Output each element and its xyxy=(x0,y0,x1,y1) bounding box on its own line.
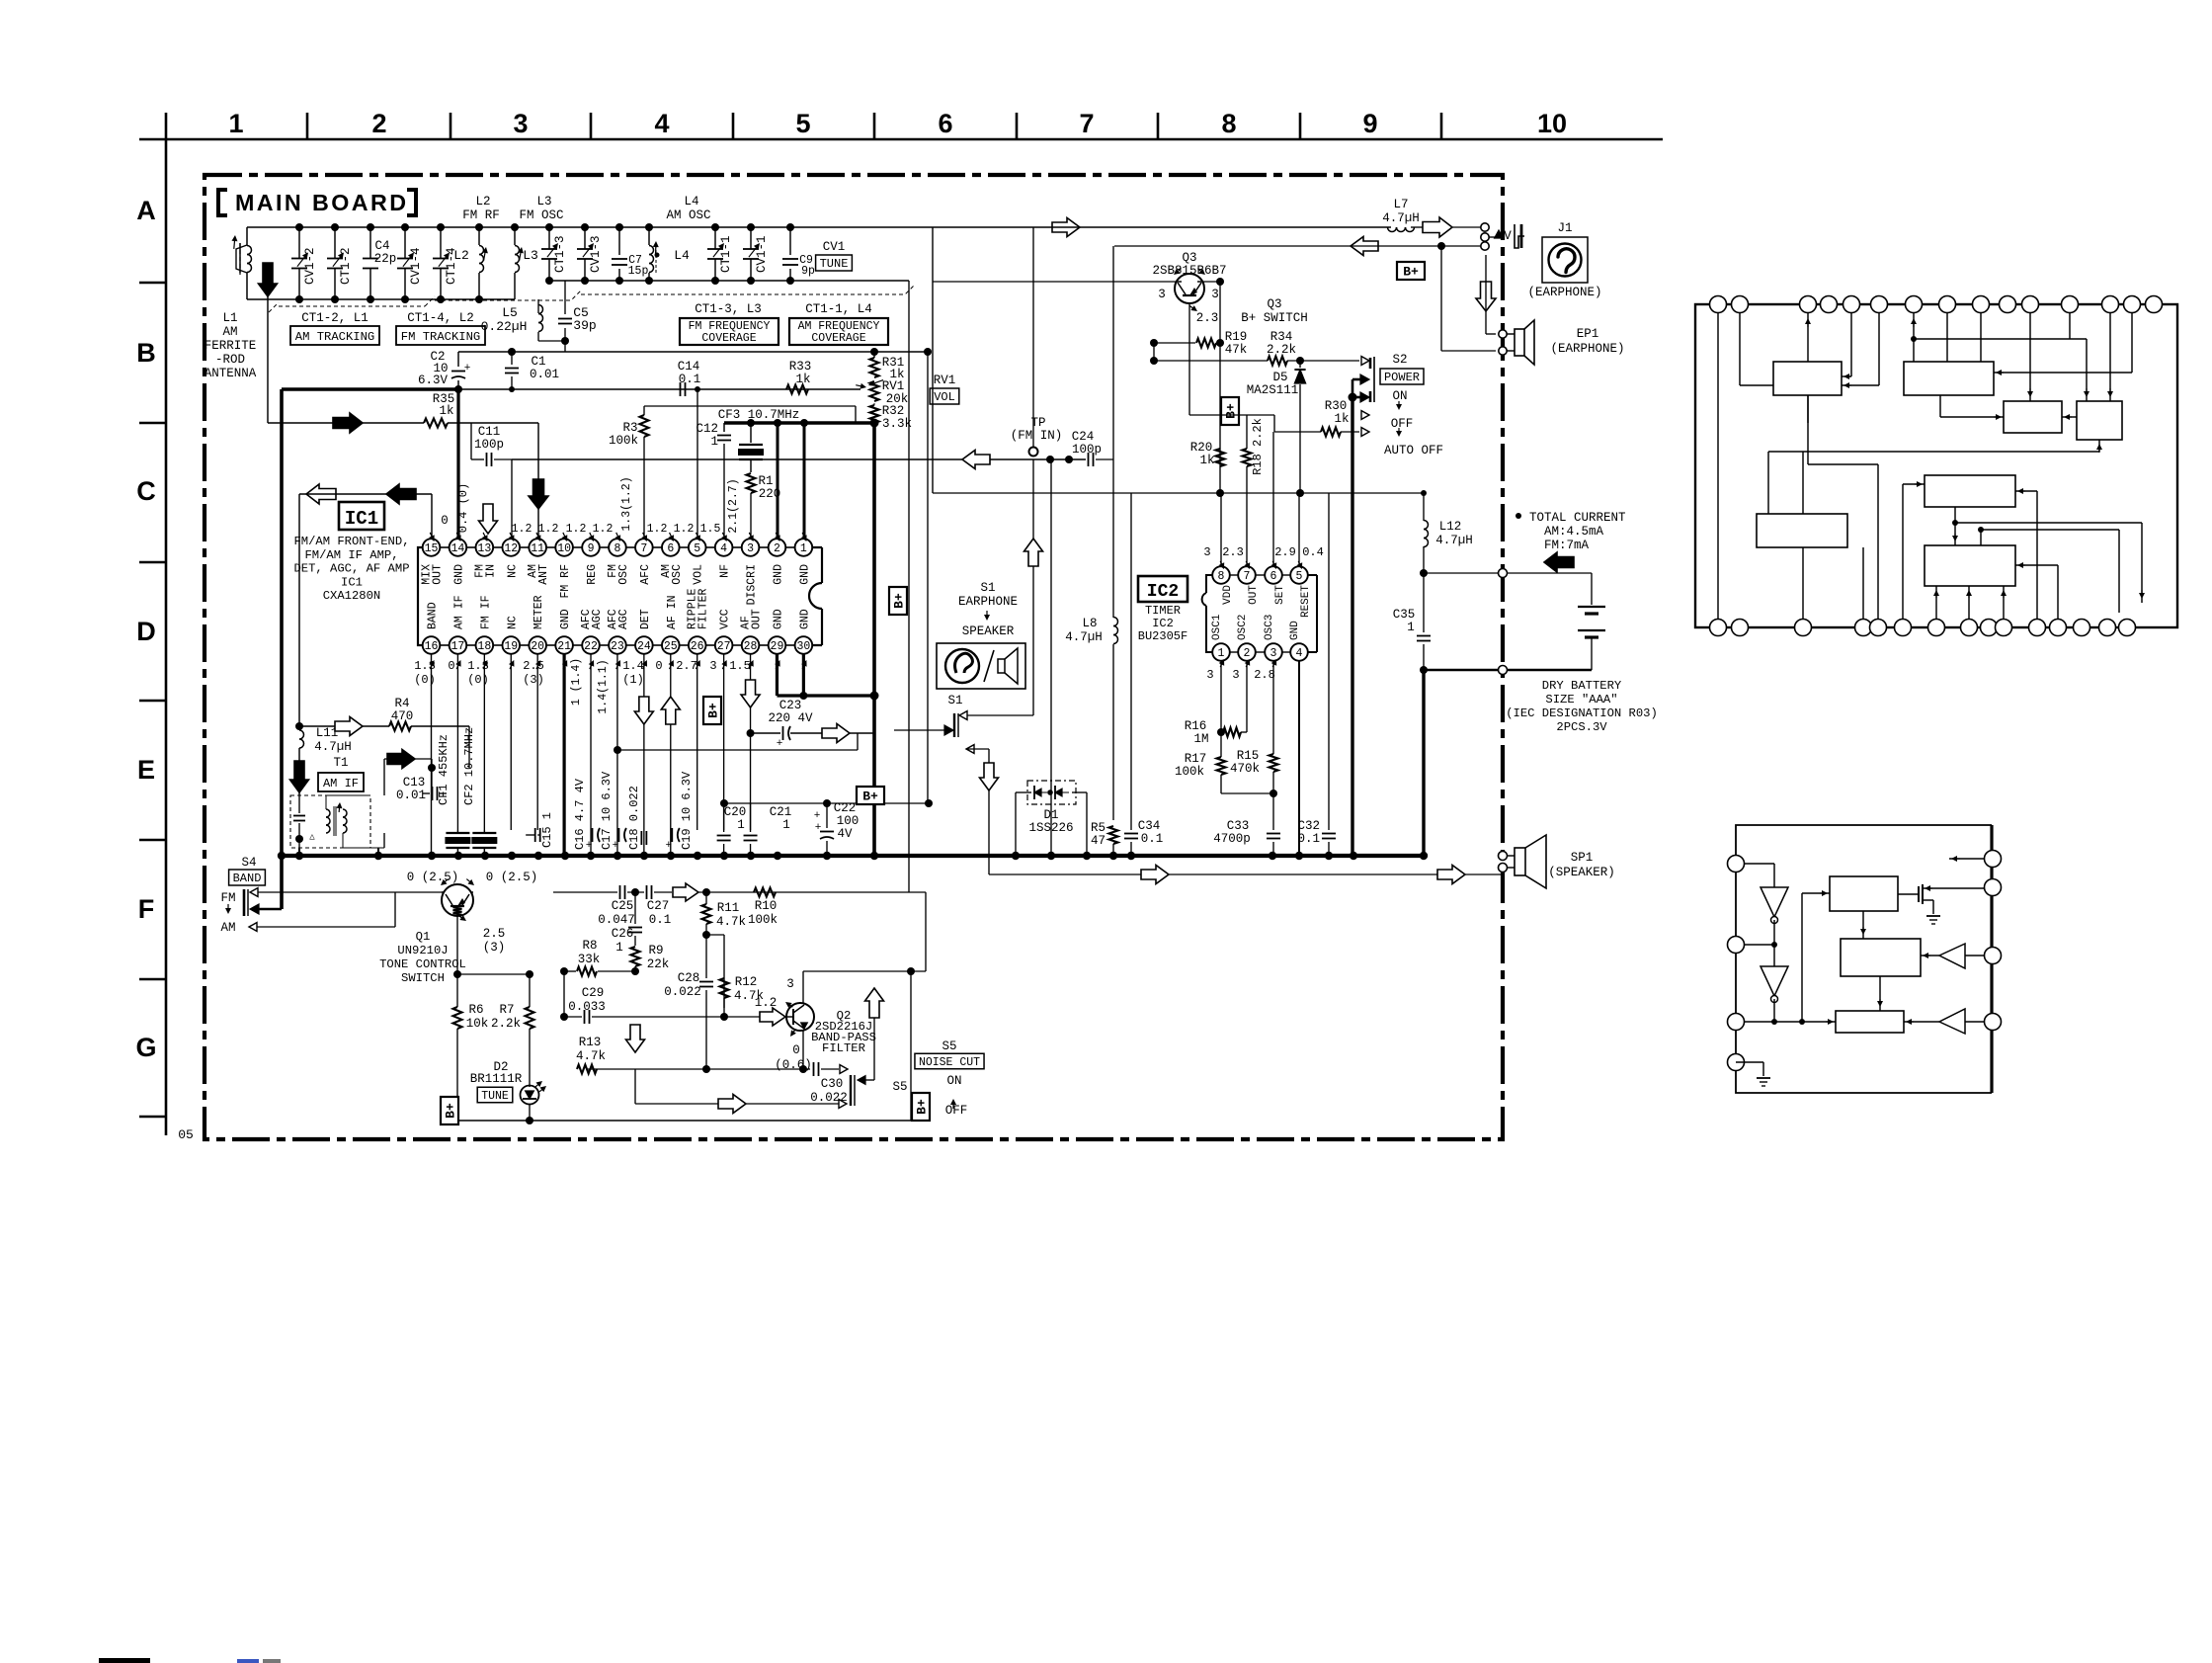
svg-text:10: 10 xyxy=(557,542,571,555)
label 3 Q2 xyxy=(786,977,794,991)
svg-text:CT1-3: CT1-3 xyxy=(553,235,567,273)
svg-text:C29: C29 xyxy=(582,986,605,1000)
svg-text:+: + xyxy=(815,822,822,834)
variable capacitor CT1-4 xyxy=(433,223,458,303)
svg-text:R17: R17 xyxy=(1185,752,1207,766)
white arrow down S1 out xyxy=(980,763,999,790)
svg-text:2.5: 2.5 xyxy=(483,927,506,941)
svg-text:S2: S2 xyxy=(1392,353,1407,367)
resistor R6 10k xyxy=(453,974,489,1121)
svg-text:22p: 22p xyxy=(374,252,397,266)
svg-text:E: E xyxy=(137,755,155,785)
svg-text:7: 7 xyxy=(1079,109,1094,138)
svg-text:4V: 4V xyxy=(837,827,853,841)
label EP1 EARPHONE xyxy=(1550,327,1624,356)
svg-text:1.5: 1.5 xyxy=(729,659,751,673)
svg-text:C21: C21 xyxy=(770,805,792,819)
svg-text:IC2: IC2 xyxy=(1152,617,1174,630)
label TOTAL CURRENT xyxy=(1516,511,1626,552)
capacitor C14 0.1 xyxy=(678,360,701,396)
svg-text:0.4 (0): 0.4 (0) xyxy=(456,483,470,533)
wire bottom tuning bus left xyxy=(247,298,515,300)
label DRY BATTERY xyxy=(1506,679,1658,734)
svg-text:FM TRACKING: FM TRACKING xyxy=(401,330,480,344)
capacitor C32 0.1 xyxy=(1297,493,1336,856)
svg-text:4.7µH: 4.7µH xyxy=(1065,630,1103,644)
svg-text:1.5: 1.5 xyxy=(700,523,721,536)
wire top tuning bus xyxy=(247,227,933,493)
label S5 NOISE CUT xyxy=(915,1039,984,1069)
label C30 0.022 xyxy=(810,1077,848,1105)
svg-text:TUNE: TUNE xyxy=(481,1090,509,1103)
svg-text:B+: B+ xyxy=(915,1099,930,1115)
svg-text:L4: L4 xyxy=(674,248,690,263)
svg-text:(FM IN): (FM IN) xyxy=(1011,429,1063,443)
B+ box right xyxy=(857,787,884,804)
svg-text:R16: R16 xyxy=(1185,719,1207,733)
svg-text:16: 16 xyxy=(425,640,439,653)
svg-text:10: 10 xyxy=(1537,109,1567,138)
svg-text:L2: L2 xyxy=(453,248,469,263)
svg-text:C18 0.022: C18 0.022 xyxy=(627,786,641,850)
ceramic filter CF1 455KHz xyxy=(437,734,474,856)
svg-text:470: 470 xyxy=(391,709,414,723)
svg-text:VOL: VOL xyxy=(934,390,955,404)
svg-text:R10: R10 xyxy=(755,899,778,913)
svg-text:470k: 470k xyxy=(1230,762,1260,776)
svg-text:4: 4 xyxy=(654,109,669,138)
svg-text:BR1111R: BR1111R xyxy=(470,1072,523,1086)
svg-text:NC: NC xyxy=(506,616,519,629)
wire B+ thick feed xyxy=(282,385,462,856)
label SP1 SPEAKER xyxy=(1548,851,1615,879)
white arrow left AFC xyxy=(962,451,990,469)
svg-text:R3: R3 xyxy=(622,421,637,435)
black arrow right T1 xyxy=(387,750,415,769)
svg-text:C23: C23 xyxy=(779,699,802,712)
svg-text:CV1-1: CV1-1 xyxy=(755,235,769,273)
svg-text:R13: R13 xyxy=(579,1036,602,1049)
svg-text:100k: 100k xyxy=(609,434,638,448)
svg-text:1.3: 1.3 xyxy=(414,659,436,673)
svg-text:39p: 39p xyxy=(573,318,596,333)
svg-text:10k: 10k xyxy=(466,1017,489,1031)
svg-text:0.01: 0.01 xyxy=(530,368,559,381)
wire speaker bus xyxy=(989,873,1503,875)
antenna L1 xyxy=(231,227,251,299)
IC2 voltages xyxy=(1203,545,1323,682)
label CT1-3 L3 xyxy=(695,302,762,316)
svg-text:R34: R34 xyxy=(1270,330,1293,344)
svg-text:C28: C28 xyxy=(678,971,700,985)
svg-text:C22: C22 xyxy=(834,801,857,815)
svg-text:1: 1 xyxy=(1218,647,1225,660)
sheet number 05 xyxy=(178,1127,194,1142)
svg-text:C: C xyxy=(136,476,156,506)
label 2.3 Q3 xyxy=(1196,311,1219,325)
svg-text:BAND: BAND xyxy=(233,872,262,885)
wire pin1 thick xyxy=(803,423,806,539)
svg-text:ON: ON xyxy=(946,1074,961,1088)
B+ box bottom left xyxy=(441,1097,458,1124)
wire CF3 thick bus xyxy=(724,419,879,428)
svg-text:L2: L2 xyxy=(475,195,490,208)
white arrow left mixout xyxy=(306,484,336,504)
block diagram IC2 mosfet xyxy=(1898,884,1985,924)
wire R18 top xyxy=(1189,414,1246,416)
svg-text:8: 8 xyxy=(1218,570,1225,583)
svg-text:6.3V: 6.3V xyxy=(418,374,449,387)
svg-text:0.4: 0.4 xyxy=(1302,545,1324,559)
svg-text:C1: C1 xyxy=(531,355,545,369)
label CT1-2 L1 xyxy=(301,311,369,325)
label 0.4 (0) xyxy=(456,483,470,533)
block diagram IC2 wires xyxy=(1736,856,1985,1086)
wire thick audio bus xyxy=(872,423,876,856)
wire jack to EP1 xyxy=(1441,246,1496,351)
label 1.2 xyxy=(755,996,778,1010)
svg-text:TOTAL CURRENT: TOTAL CURRENT xyxy=(1529,511,1626,525)
svg-text:Q3: Q3 xyxy=(1267,297,1281,311)
svg-text:FM:7mA: FM:7mA xyxy=(1544,539,1590,552)
block diagram IC2 left pins xyxy=(1728,856,1745,1071)
svg-text:R32: R32 xyxy=(882,404,905,418)
white arrow down pin28 xyxy=(741,680,760,707)
white arrow up Q2 right xyxy=(865,988,884,1080)
svg-text:AUTO OFF: AUTO OFF xyxy=(1384,444,1443,457)
svg-text:2.2k: 2.2k xyxy=(1267,343,1296,357)
ruler top ticks xyxy=(307,113,1441,139)
svg-text:2.7: 2.7 xyxy=(676,659,697,673)
svg-text:L4: L4 xyxy=(684,195,698,208)
svg-text:4.7µH: 4.7µH xyxy=(1435,534,1473,547)
resistor R16 1M xyxy=(1185,660,1247,746)
ruler row letters xyxy=(135,196,156,1062)
svg-text:4.7k: 4.7k xyxy=(716,915,746,929)
svg-text:3: 3 xyxy=(1158,288,1166,301)
wire AFC long xyxy=(512,459,1086,539)
B+ box right col xyxy=(889,587,907,615)
label Q3 B+ switch xyxy=(1241,297,1308,325)
box BAND xyxy=(229,870,266,885)
svg-text:OUT: OUT xyxy=(751,609,764,629)
svg-text:GND: GND xyxy=(559,609,572,629)
block diagram IC2 inverter 1 xyxy=(1761,887,1788,924)
main board title xyxy=(218,190,416,215)
label Q1 tone control xyxy=(379,930,466,985)
switch S5 xyxy=(839,1075,874,1108)
svg-text:CF1 455KHz: CF1 455KHz xyxy=(437,734,451,805)
resistor R5 47 xyxy=(1091,821,1118,856)
svg-text:R33: R33 xyxy=(789,360,812,374)
svg-text:+: + xyxy=(464,363,471,374)
label L2 FM RF xyxy=(462,195,500,222)
svg-text:-ROD: -ROD xyxy=(215,353,245,367)
svg-text:MA2S111: MA2S111 xyxy=(1247,383,1299,397)
label T1 xyxy=(333,756,348,770)
border ruler left line xyxy=(165,113,168,1135)
svg-text:1.2: 1.2 xyxy=(674,523,695,536)
box FM FREQUENCY COVERAGE xyxy=(680,318,778,345)
svg-text:SET: SET xyxy=(1274,585,1286,605)
switch S2 xyxy=(1349,357,1375,437)
wire det row xyxy=(614,733,858,754)
svg-text:2.3: 2.3 xyxy=(1196,311,1219,325)
white arrow down pin24 xyxy=(634,697,653,724)
wire R31 top bus xyxy=(458,348,932,356)
svg-text:COVERAGE: COVERAGE xyxy=(701,332,756,345)
svg-text:CT1-3, L3: CT1-3, L3 xyxy=(695,302,762,316)
resistor R33 1k xyxy=(786,360,811,394)
svg-text:B+: B+ xyxy=(444,1103,458,1119)
svg-text:R15: R15 xyxy=(1237,749,1260,763)
wire fmin col xyxy=(1112,246,1114,459)
wire S2 thick power xyxy=(1352,379,1354,856)
svg-text:FM IF: FM IF xyxy=(479,595,492,629)
capacitor C29 0.033 xyxy=(560,971,728,1024)
svg-text:1: 1 xyxy=(710,435,718,449)
svg-text:4.7µH: 4.7µH xyxy=(1382,211,1420,225)
capacitor C23 220 4V xyxy=(747,699,874,750)
svg-text:1M: 1M xyxy=(1193,732,1208,746)
svg-text:26: 26 xyxy=(691,640,704,653)
svg-text:CT1-4, L2: CT1-4, L2 xyxy=(407,311,474,325)
svg-text:13: 13 xyxy=(477,542,491,555)
B+ box Q3 xyxy=(1221,397,1239,425)
svg-text:22k: 22k xyxy=(647,957,670,971)
svg-text:FM/AM IF AMP,: FM/AM IF AMP, xyxy=(304,548,398,562)
label J1 EARPHONE xyxy=(1527,286,1601,299)
svg-text:0.1: 0.1 xyxy=(679,373,701,386)
svg-text:29: 29 xyxy=(771,640,784,653)
svg-text:OSC2: OSC2 xyxy=(1237,615,1249,640)
svg-text:8: 8 xyxy=(1221,109,1236,138)
svg-text:2.3: 2.3 xyxy=(1222,545,1244,559)
svg-text:L8: L8 xyxy=(1082,617,1097,630)
capacitor C35 1 xyxy=(1393,573,1431,670)
svg-text:D: D xyxy=(136,617,156,646)
svg-text:AF IN: AF IN xyxy=(666,595,679,629)
capacitor C19 10 6.3V xyxy=(665,771,694,856)
S1 icon box xyxy=(937,643,1025,689)
svg-text:27: 27 xyxy=(717,640,731,653)
speaker SP1 xyxy=(1499,835,1547,888)
svg-text:R9: R9 xyxy=(648,944,663,957)
block diagram wires xyxy=(1718,313,2145,620)
svg-text:B+: B+ xyxy=(892,593,907,609)
svg-text:24: 24 xyxy=(637,640,651,653)
capacitor C17 10 6.3V xyxy=(600,771,626,856)
capacitor C25 0.047 xyxy=(553,885,644,927)
svg-text:C15 1: C15 1 xyxy=(540,812,554,848)
svg-text:0.1: 0.1 xyxy=(649,913,672,927)
svg-text:S1: S1 xyxy=(980,581,995,595)
IC2 body xyxy=(1202,575,1317,652)
IC1 description xyxy=(293,535,409,603)
capacitor C5 39p xyxy=(558,281,597,352)
transformer T1 dashed box xyxy=(290,795,370,848)
IC1 bottom pin row xyxy=(423,636,812,654)
svg-text:3: 3 xyxy=(513,109,528,138)
label 0 (2.5) left xyxy=(407,871,459,884)
svg-text:NOISE CUT: NOISE CUT xyxy=(919,1056,980,1069)
inductor L11 4.7uH xyxy=(299,726,352,795)
label S1 switch xyxy=(947,694,962,707)
svg-text:OSC3: OSC3 xyxy=(1264,615,1275,640)
capacitor C26 1 xyxy=(612,892,642,955)
svg-text:1.2: 1.2 xyxy=(566,523,587,536)
inductor L2 xyxy=(453,223,488,303)
svg-text:R8: R8 xyxy=(582,939,597,953)
svg-text:(SPEAKER): (SPEAKER) xyxy=(1548,866,1615,879)
label S4 xyxy=(241,856,256,870)
block diagram IC2 amp 2 xyxy=(1904,1009,1985,1034)
svg-text:CT1-1: CT1-1 xyxy=(719,235,733,273)
svg-text:POWER: POWER xyxy=(1384,371,1420,384)
svg-text:1 (1.4): 1 (1.4) xyxy=(570,658,583,706)
label TP FM IN xyxy=(1011,416,1063,443)
resistor R9 22k xyxy=(631,944,670,971)
earphone EP1 xyxy=(1499,320,1534,365)
svg-text:1.2: 1.2 xyxy=(647,523,668,536)
wire antenna tap xyxy=(267,263,269,423)
jack plug symbol xyxy=(1495,224,1524,248)
svg-text:100k: 100k xyxy=(748,913,778,927)
wire S4 FM xyxy=(258,891,445,893)
wire S4 common thick xyxy=(259,856,282,909)
svg-text:GND: GND xyxy=(772,609,784,629)
svg-text:RESET: RESET xyxy=(1300,585,1312,618)
trimmer CT1-3 xyxy=(541,223,567,285)
variable capacitor CT1-2 xyxy=(327,223,353,303)
svg-text:VCC: VCC xyxy=(719,609,732,629)
wire L12 top xyxy=(1335,490,1427,496)
svg-text:28: 28 xyxy=(744,640,758,653)
resistor R7 2.2k xyxy=(491,974,534,1087)
svg-text:14: 14 xyxy=(451,542,465,555)
svg-text:J1: J1 xyxy=(1557,221,1572,235)
block diagram box B5 xyxy=(1757,514,1847,547)
svg-text:S5: S5 xyxy=(892,1080,907,1094)
svg-text:AGC: AGC xyxy=(617,609,630,629)
svg-text:S1: S1 xyxy=(947,694,962,707)
wire pin11 drop xyxy=(537,423,539,539)
label 3 left Q3 xyxy=(1158,288,1166,301)
svg-text:1k: 1k xyxy=(1199,454,1214,467)
svg-text:0: 0 xyxy=(448,659,454,673)
svg-text:100: 100 xyxy=(837,814,860,828)
resistor R32 3.3k xyxy=(870,403,913,431)
svg-text:1SS226: 1SS226 xyxy=(1028,821,1073,835)
svg-text:23: 23 xyxy=(611,640,624,653)
wire Q3 collector xyxy=(1203,278,1224,343)
svg-text:SP1: SP1 xyxy=(1571,851,1594,865)
wire Q3 feed S2 xyxy=(1189,361,1274,432)
wire mixout loop xyxy=(299,494,432,726)
wire T1 bottom xyxy=(299,848,378,856)
trimmer CV1-1 xyxy=(743,223,769,285)
svg-text:15p: 15p xyxy=(628,265,649,278)
white arrow right L7 xyxy=(1423,217,1485,237)
svg-text:ON: ON xyxy=(1392,389,1407,403)
svg-text:+: + xyxy=(814,810,821,822)
capacitor C11 100p xyxy=(471,423,512,466)
svg-text:3: 3 xyxy=(709,659,716,673)
capacitor C1 0.01 xyxy=(505,352,559,389)
wire Q3 emitter row xyxy=(933,281,1176,283)
white arrow right S5 xyxy=(718,1095,746,1114)
svg-text:1.2: 1.2 xyxy=(538,523,559,536)
svg-text:IC2: IC2 xyxy=(1147,582,1179,602)
svg-text:FM: FM xyxy=(220,891,235,905)
capacitor C33 4700p xyxy=(1213,819,1280,856)
resistor R10 100k xyxy=(748,888,778,928)
battery B1 xyxy=(1578,607,1605,670)
svg-text:3.3k: 3.3k xyxy=(882,417,912,431)
svg-text:NF: NF xyxy=(719,564,732,578)
potentiometer RV1 20k xyxy=(868,379,908,406)
svg-text:BU2305F: BU2305F xyxy=(1138,629,1188,643)
label S1 EARPHONE SPEAKER xyxy=(958,581,1018,638)
svg-text:47k: 47k xyxy=(1225,343,1248,357)
diode D5 MA2S111 xyxy=(1247,361,1306,493)
wire Q1 branch xyxy=(457,970,533,978)
svg-text:6: 6 xyxy=(1270,570,1277,583)
svg-text:(0): (0) xyxy=(414,673,436,687)
wire pin2 thick xyxy=(777,423,779,539)
wire C32 top xyxy=(1328,493,1330,810)
svg-text:S5: S5 xyxy=(942,1039,956,1053)
capacitor C22 100 4V xyxy=(814,801,860,856)
svg-text:CV1-4: CV1-4 xyxy=(409,247,423,285)
wire IC2 vdd row xyxy=(933,489,1335,497)
label L4 AM OSC xyxy=(666,195,710,222)
svg-text:TONE CONTROL: TONE CONTROL xyxy=(379,957,466,971)
IC1 top pin row xyxy=(423,539,812,556)
black arrow down antenna xyxy=(259,263,278,296)
resistor R8 33k xyxy=(560,939,639,976)
svg-text:COVERAGE: COVERAGE xyxy=(811,332,865,345)
svg-text:C4: C4 xyxy=(374,239,389,253)
box FM TRACKING xyxy=(396,326,485,345)
svg-text:100k: 100k xyxy=(1175,765,1204,779)
B+ box bottom right xyxy=(912,1093,930,1121)
trimmer CV1-3 xyxy=(577,223,603,285)
svg-text:5: 5 xyxy=(795,109,810,138)
svg-text:C24: C24 xyxy=(1072,430,1095,444)
inductor L5 0.22uH xyxy=(481,299,565,341)
wire vol col xyxy=(908,281,910,892)
wire top feed col xyxy=(1032,227,1034,448)
svg-text:2.5: 2.5 xyxy=(523,659,544,673)
svg-text:2SB815B6B7: 2SB815B6B7 xyxy=(1152,264,1226,278)
white arrow up pin25 xyxy=(661,697,680,724)
wire jack mid drop xyxy=(1484,237,1486,241)
svg-text:C25: C25 xyxy=(612,899,634,913)
svg-text:3: 3 xyxy=(1211,288,1219,301)
svg-text:DET, AGC, AF AMP: DET, AGC, AF AMP xyxy=(293,562,409,576)
inductor L3 xyxy=(511,223,538,299)
label L3 FM OSC xyxy=(519,195,563,222)
svg-text:OUT: OUT xyxy=(1248,585,1260,605)
svg-text:1: 1 xyxy=(737,818,745,832)
svg-text:2.2k: 2.2k xyxy=(491,1017,521,1031)
svg-text:1: 1 xyxy=(1407,621,1415,634)
svg-text:Q1: Q1 xyxy=(416,930,431,944)
svg-text:0 (2.5): 0 (2.5) xyxy=(407,871,459,884)
wire C14 R33 bus xyxy=(458,383,866,392)
black arrow down T1 xyxy=(290,761,309,792)
